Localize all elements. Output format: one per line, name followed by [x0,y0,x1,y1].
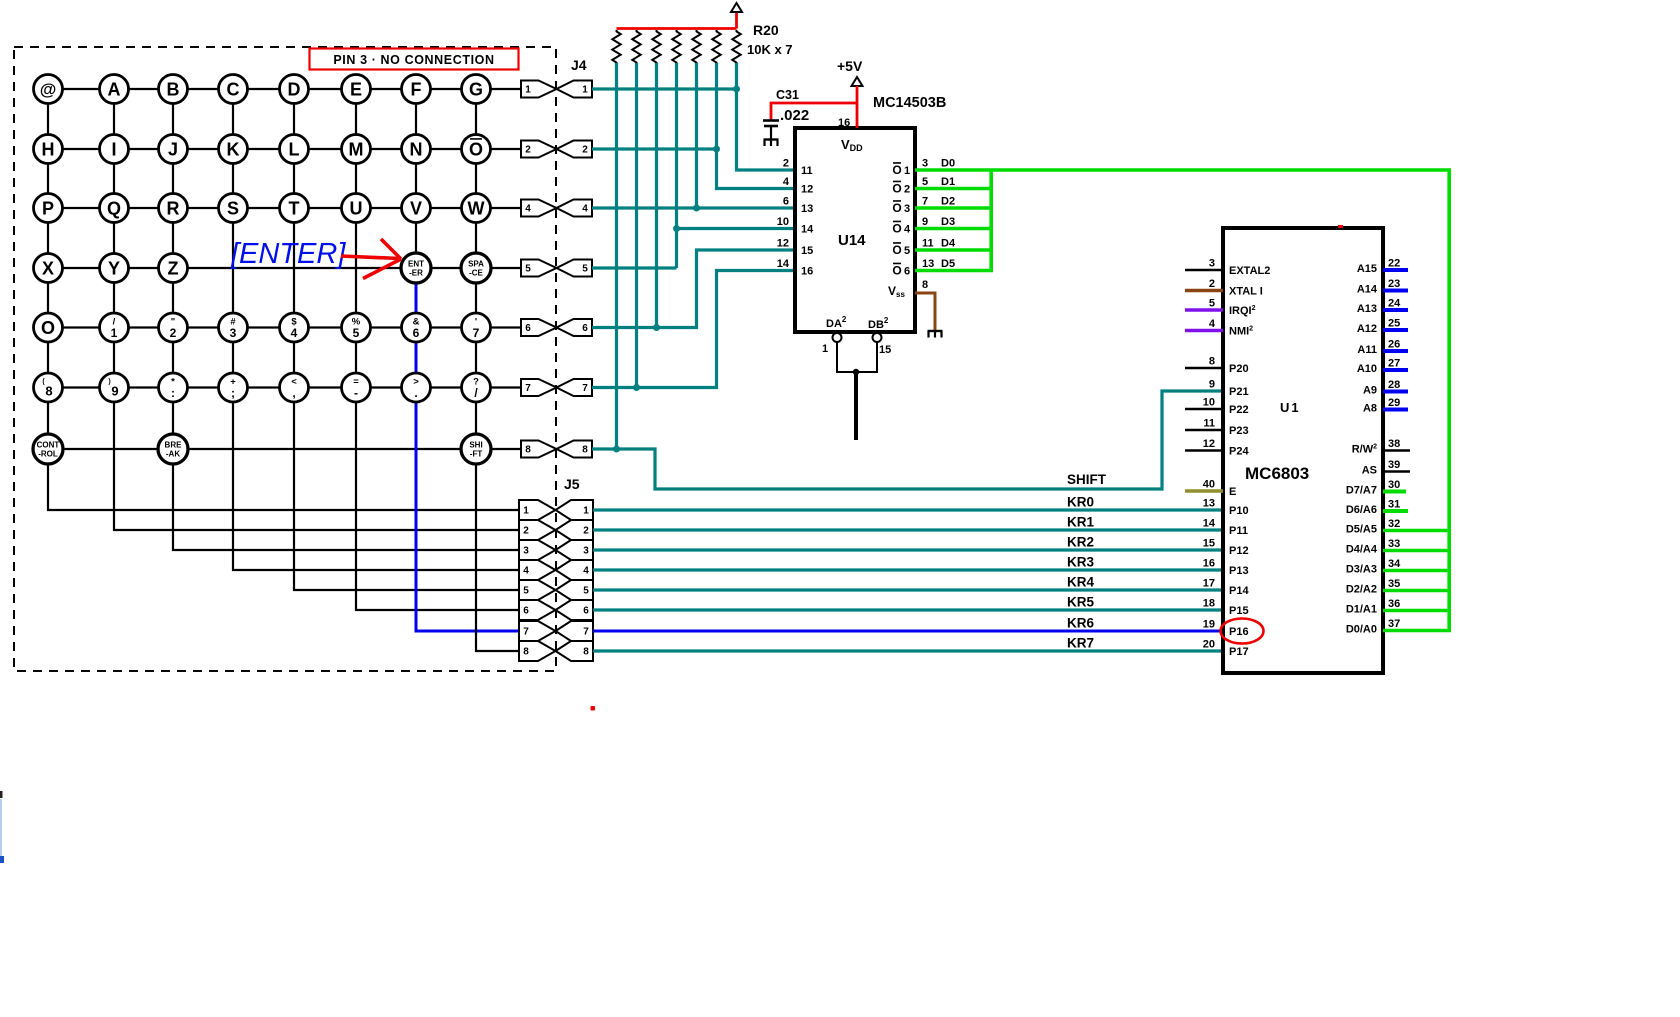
wire J4-6 to U14 pin 15 [592,250,795,328]
key SHIFT [461,434,491,464]
svg-text:Q: Q [107,198,121,218]
svg-text:P23: P23 [1229,425,1249,437]
svg-text:KR7: KR7 [1067,636,1094,651]
svg-text:P22: P22 [1229,404,1249,416]
junction R20-4/pin14 [673,225,680,232]
svg-text:29: 29 [1388,397,1400,409]
U1 pin 31 D6/A6 [1383,509,1408,513]
svg-text:O: O [892,163,901,177]
svg-text:P11: P11 [1229,525,1248,537]
svg-text:15: 15 [1203,538,1215,550]
connector J5 pin 7 [519,621,556,641]
svg-text:D0/A0: D0/A0 [1346,624,1377,636]
connector J4 pin 8 [521,441,557,458]
key W [462,194,491,223]
svg-text:.: . [414,386,417,400]
svg-text:1: 1 [904,165,910,177]
wire D5 (U14 pin 13) [915,269,993,273]
svg-text:R20: R20 [753,22,779,38]
svg-text:12: 12 [801,184,813,196]
svg-text:8: 8 [582,445,588,456]
svg-text:14: 14 [1203,518,1216,530]
key 1 [100,313,129,342]
resistor R20-2 [632,30,640,64]
U14 DB pin 15 circle [873,333,882,342]
junction J4-4/R20-5 [693,205,700,212]
key P [34,194,63,223]
svg-text:33: 33 [1388,538,1400,550]
key H [34,135,63,164]
key 2 [159,313,188,342]
junction DA/DB [853,369,859,375]
+5V triangle (U14) [852,77,863,86]
svg-text:6: 6 [582,323,588,334]
svg-text:27: 27 [1388,358,1400,370]
svg-text:2: 2 [583,526,589,537]
svg-text:2: 2 [170,326,177,340]
wire KR6 (J5-7 to U1) [593,630,1223,633]
svg-text:2: 2 [783,158,789,170]
svg-text:20: 20 [1203,639,1215,651]
U1 pin 29 A8 [1383,408,1408,412]
svg-text:D3: D3 [941,216,955,228]
svg-text:.022: .022 [780,107,809,124]
resistor R20-4 [672,30,680,64]
svg-text:5: 5 [523,586,529,597]
svg-text:J: J [168,139,178,159]
left edge artifact blue [0,856,4,863]
wire matrix row5 horizontal [48,326,521,328]
svg-text:P12: P12 [1229,545,1249,557]
key , [280,373,309,402]
U1 pin 5 IRQI [1185,308,1223,311]
svg-text:BRE: BRE [165,441,183,450]
wire J4-1 to U14 pin 11 [592,87,737,90]
svg-text:3: 3 [922,158,928,170]
junction J4-2/R20-6 [713,146,720,153]
wire matrix row4 horizontal [48,267,521,269]
left edge artifact black [0,791,3,798]
key K [219,135,248,164]
key CONTROL [33,434,63,464]
connector J4 pin 4 [521,200,557,217]
svg-text:,: , [292,386,295,400]
key BREAK [158,434,188,464]
connector J4 pin 7 [521,379,557,396]
svg-text:13: 13 [1203,498,1215,510]
svg-text:A14: A14 [1357,284,1378,296]
U1 pin 4 NMI [1185,329,1223,332]
svg-text:38: 38 [1388,438,1400,450]
U1 pin 22 A15 [1383,268,1408,272]
svg-text:4: 4 [582,204,588,215]
wire D5/A5 to data bus [1383,529,1451,533]
key 4 [280,313,309,342]
svg-text:P13: P13 [1229,565,1249,577]
svg-text:1: 1 [523,506,529,517]
wire D2 (U14 pin 7) [915,206,993,210]
svg-text:D0: D0 [941,158,955,170]
svg-text:35: 35 [1388,578,1400,590]
wire KR1 (J5-2 to U1) [593,528,1223,531]
capacitor C31 [763,119,779,122]
svg-text:A10: A10 [1357,363,1377,375]
svg-text:D2/A2: D2/A2 [1346,584,1377,596]
svg-text:10: 10 [777,216,789,228]
U1 pin 30 D7/A7 [1383,490,1406,494]
svg-text:25: 25 [1388,318,1400,330]
svg-text:16: 16 [1203,558,1215,570]
svg-text:W: W [468,198,485,218]
wire matrix col4 to J5-4 [233,89,519,570]
svg-text:6: 6 [523,606,529,617]
key F [402,75,431,104]
svg-text:X: X [42,258,54,278]
svg-text:P16: P16 [1229,626,1249,638]
U1 pin 3 EXTAL2 [1185,269,1223,272]
wire matrix row1 horizontal [48,88,521,90]
svg-text:D2: D2 [941,196,955,208]
svg-text:S: S [227,198,239,218]
svg-text:6: 6 [525,323,531,334]
svg-text:+5V: +5V [837,58,863,74]
svg-text:-AK: -AK [166,450,180,459]
svg-text:14: 14 [801,224,814,236]
IC U14 MC14503B body [795,128,915,332]
svg-text:19: 19 [1203,619,1215,631]
wire J4-4 to U14 pin 13 [592,206,795,209]
svg-text:6: 6 [783,196,789,208]
wire KR5 (J5-6 to U1) [593,608,1223,611]
junction J4-6/R20-3 [653,324,660,331]
key S [219,194,248,223]
wire matrix row2 horizontal [48,148,521,150]
svg-text:C31: C31 [776,88,799,102]
svg-text:8: 8 [45,384,52,399]
connector J4 pin 5 [521,260,557,277]
U1 pin 10 P22 [1185,408,1223,411]
wire DA/DB strobe join [837,342,877,372]
note: PIN 3 - NO CONNECTION [310,49,519,70]
svg-text:6: 6 [904,266,910,278]
ground (U14 Vss) [928,330,943,332]
U1 pin 39 AS [1383,470,1410,473]
svg-text:1: 1 [583,506,589,517]
svg-text:10: 10 [1203,397,1215,409]
svg-text:5: 5 [922,176,928,188]
svg-text:U: U [350,198,363,218]
key : [159,373,188,402]
wire +5V to U14 pin 16 [856,86,859,128]
key M [342,135,371,164]
connector J5 pin 3 [519,540,556,560]
svg-text:U14: U14 [838,232,866,249]
svg-text:;: ; [231,386,235,400]
U1 pin 27 A10 [1383,368,1408,372]
svg-text:J4: J4 [571,57,587,73]
IC U1 MC6803 body [1223,228,1383,673]
wire matrix col7 ENTER column to J5-7 (blue) [416,268,519,631]
keyboard matrix enclosure (dashed) [14,47,556,671]
svg-text:J5: J5 [564,476,580,492]
svg-text:6: 6 [583,606,589,617]
svg-text:O: O [41,318,55,338]
svg-text:40: 40 [1203,479,1215,491]
svg-text:C: C [227,79,240,99]
wire matrix col2 to J5-2 [114,89,519,530]
svg-text:K: K [227,139,240,159]
svg-text:A: A [108,79,121,99]
key E [342,75,371,104]
svg-text:I: I [111,139,116,159]
stray red mark below J5 [591,706,596,711]
connector J5 pin 5 [519,580,556,600]
wire KR4 (J5-5 to U1) [593,588,1223,591]
svg-text:4: 4 [583,566,589,577]
svg-text:1: 1 [822,343,828,355]
wire D1 (U14 pin 5) [915,187,993,191]
svg-text:32: 32 [1388,518,1400,530]
svg-text:ENT: ENT [408,260,424,269]
wire KR0 (J5-1 to U1) [593,508,1223,511]
key Q [100,194,129,223]
svg-text:M: M [349,139,364,159]
wire KR7 (J5-8 to U1) [593,649,1223,652]
key 5 [342,313,371,342]
connector J5 pin 8 [519,641,556,661]
wire D0/A0 to data bus [1383,629,1451,633]
svg-text:4: 4 [525,204,531,215]
wire matrix col5 to J5-5 [294,89,519,590]
svg-text:16: 16 [838,117,850,129]
svg-text:@: @ [40,80,57,99]
svg-text:23: 23 [1388,278,1400,290]
svg-text:D4/A4: D4/A4 [1346,544,1378,556]
svg-text:22: 22 [1388,258,1400,270]
U1 pin 24 A13 [1383,308,1408,312]
svg-text:8: 8 [523,647,529,658]
svg-text:2: 2 [582,145,588,156]
+5V triangle (R20) [731,3,742,12]
svg-text:H: H [42,139,55,159]
svg-text:5: 5 [525,264,531,275]
svg-text:2: 2 [523,526,529,537]
wire +5V to C31 [771,103,857,120]
svg-text:KR3: KR3 [1067,555,1094,570]
svg-text:26: 26 [1388,339,1400,351]
resistor R20-5 [692,30,700,64]
key I [100,135,129,164]
svg-text:5: 5 [583,586,589,597]
svg-text:D6/A6: D6/A6 [1346,504,1377,516]
svg-text:13: 13 [922,258,934,270]
key - [342,373,371,402]
svg-text:MC14503B: MC14503B [873,95,946,111]
svg-text:-ROL: -ROL [38,450,58,459]
key B [159,75,188,104]
svg-text:28: 28 [1388,379,1400,391]
svg-text:2: 2 [525,145,531,156]
wire strobe down [854,372,858,440]
svg-text:7: 7 [473,326,480,340]
wire J4-8 / SHIFT to U1 P21 [592,391,1223,489]
U1 pin 2 XTAL I [1185,289,1223,292]
wire D1/A1 to data bus [1383,609,1451,613]
svg-text:R: R [167,198,180,218]
svg-text:5: 5 [1209,298,1215,310]
svg-text:Z: Z [168,258,179,278]
svg-text:U1: U1 [1280,400,1301,415]
key . [402,373,431,402]
key / [462,373,491,402]
wire D3 (U14 pin 9) [915,227,993,231]
U1 pin 11 P23 [1185,429,1223,432]
svg-text:11: 11 [1203,418,1215,430]
svg-text:KR4: KR4 [1067,575,1094,590]
wire matrix row3 horizontal [48,207,521,209]
key U [342,194,371,223]
svg-text:11: 11 [801,165,813,177]
U1 pin 38 R/W [1383,449,1410,452]
svg-text:31: 31 [1388,499,1400,511]
left edge artifact lightblue [0,799,2,856]
svg-text:6: 6 [413,326,420,340]
connector J5 pin 4 [519,560,556,580]
svg-text:KR2: KR2 [1067,535,1094,550]
svg-text:KR6: KR6 [1067,616,1094,631]
key ENTER [401,253,431,283]
data bus vertical (D1-D5 merge) [989,170,993,271]
svg-text:2: 2 [904,184,910,196]
svg-text:Y: Y [108,258,120,278]
svg-text:P20: P20 [1229,363,1249,375]
svg-text:1: 1 [111,326,118,340]
key L [280,135,309,164]
highlight ellipse around P16 [1221,619,1264,644]
svg-text:SPA: SPA [468,260,484,269]
svg-text:30: 30 [1388,479,1400,491]
svg-text:D5: D5 [941,258,955,270]
key 9 [100,373,129,402]
U1 pin 28 A9 [1383,390,1408,394]
svg-text:AS: AS [1362,465,1377,477]
wire matrix col8 to J5-8 [476,89,519,651]
svg-text:3: 3 [1209,258,1215,270]
svg-text:P24: P24 [1229,446,1249,458]
svg-text:37: 37 [1388,618,1400,630]
svg-text:D3/A3: D3/A3 [1346,564,1377,576]
key D [280,75,309,104]
svg-text:11: 11 [922,238,934,250]
wire matrix col6 to J5-6 [356,89,519,610]
svg-text:[ENTER]: [ENTER] [230,238,346,270]
key T [280,194,309,223]
wire D3/A3 to data bus [1383,569,1451,573]
svg-text:SHIFT: SHIFT [1067,472,1107,487]
svg-text:EXTAL2: EXTAL2 [1229,265,1270,277]
connector J4 pin 1 [521,81,557,98]
svg-text:9: 9 [922,216,928,228]
junction J4-7/R20-2 [633,384,640,391]
junction J4-8/R20-1 [613,446,620,453]
svg-text:8: 8 [1209,356,1215,368]
wire J4-5 to U14 pin 14 [592,266,677,269]
svg-text:E: E [350,79,362,99]
svg-text:10K x 7: 10K x 7 [747,42,793,57]
svg-text::: : [171,386,175,400]
svg-text:N: N [410,139,423,159]
U14 DA pin 1 circle [833,333,842,342]
svg-text:8: 8 [525,445,531,456]
svg-text:16: 16 [801,266,813,278]
key V [402,194,431,223]
U1 pin 12 P24 [1185,449,1223,452]
key 8 [34,373,63,402]
svg-text:7: 7 [582,383,588,394]
svg-text:D4: D4 [941,238,956,250]
wire KR3 (J5-4 to U1) [593,568,1223,571]
svg-text:8: 8 [922,279,928,291]
connector J5 pin 1 [519,500,556,520]
wire matrix row6 horizontal [48,386,521,388]
U1 pin 25 A12 [1383,328,1408,332]
svg-text:7: 7 [523,627,529,638]
svg-text:P15: P15 [1229,605,1249,617]
svg-text:5: 5 [582,264,588,275]
svg-text:39: 39 [1388,459,1400,471]
svg-text:CONT: CONT [37,441,60,450]
svg-text:D: D [288,79,301,99]
svg-text:-CE: -CE [469,269,483,278]
svg-text:O: O [469,140,483,160]
svg-text:B: B [167,79,180,99]
connector J5 pin 2 [519,520,556,540]
key SPACE [461,253,491,283]
key X [34,254,63,283]
svg-text:A12: A12 [1357,323,1377,335]
svg-text:4: 4 [291,326,298,340]
svg-text:KR0: KR0 [1067,495,1094,510]
key O [34,313,63,342]
resistor R20-7 [732,30,740,64]
svg-text:A11: A11 [1357,344,1377,356]
connector J4 pin 6 [521,319,557,336]
key 3 [219,313,248,342]
svg-text:A15: A15 [1357,263,1377,275]
svg-text:15: 15 [879,344,891,356]
svg-text:KR5: KR5 [1067,595,1094,610]
wire KR2 (J5-3 to U1) [593,548,1223,551]
svg-text:34: 34 [1388,558,1401,570]
key Z [159,254,188,283]
svg-text:T: T [289,198,300,218]
svg-text:7: 7 [583,627,589,638]
wire J4-2 to U14 pin 12 [592,147,717,150]
svg-text:-FT: -FT [470,450,483,459]
svg-text:2: 2 [1209,278,1215,290]
svg-text:KR1: KR1 [1067,515,1094,530]
svg-text:1: 1 [525,85,531,96]
svg-text:MC6803: MC6803 [1245,464,1309,483]
wire matrix col3 to J5-3 [173,89,519,550]
svg-text:18: 18 [1203,598,1215,610]
key N [402,135,431,164]
svg-text:A9: A9 [1363,385,1377,397]
wire D0 bus to U1 (top run) [915,170,1449,631]
svg-text:9: 9 [1209,379,1215,391]
key @ [34,75,63,104]
svg-text:SHI: SHI [469,441,482,450]
